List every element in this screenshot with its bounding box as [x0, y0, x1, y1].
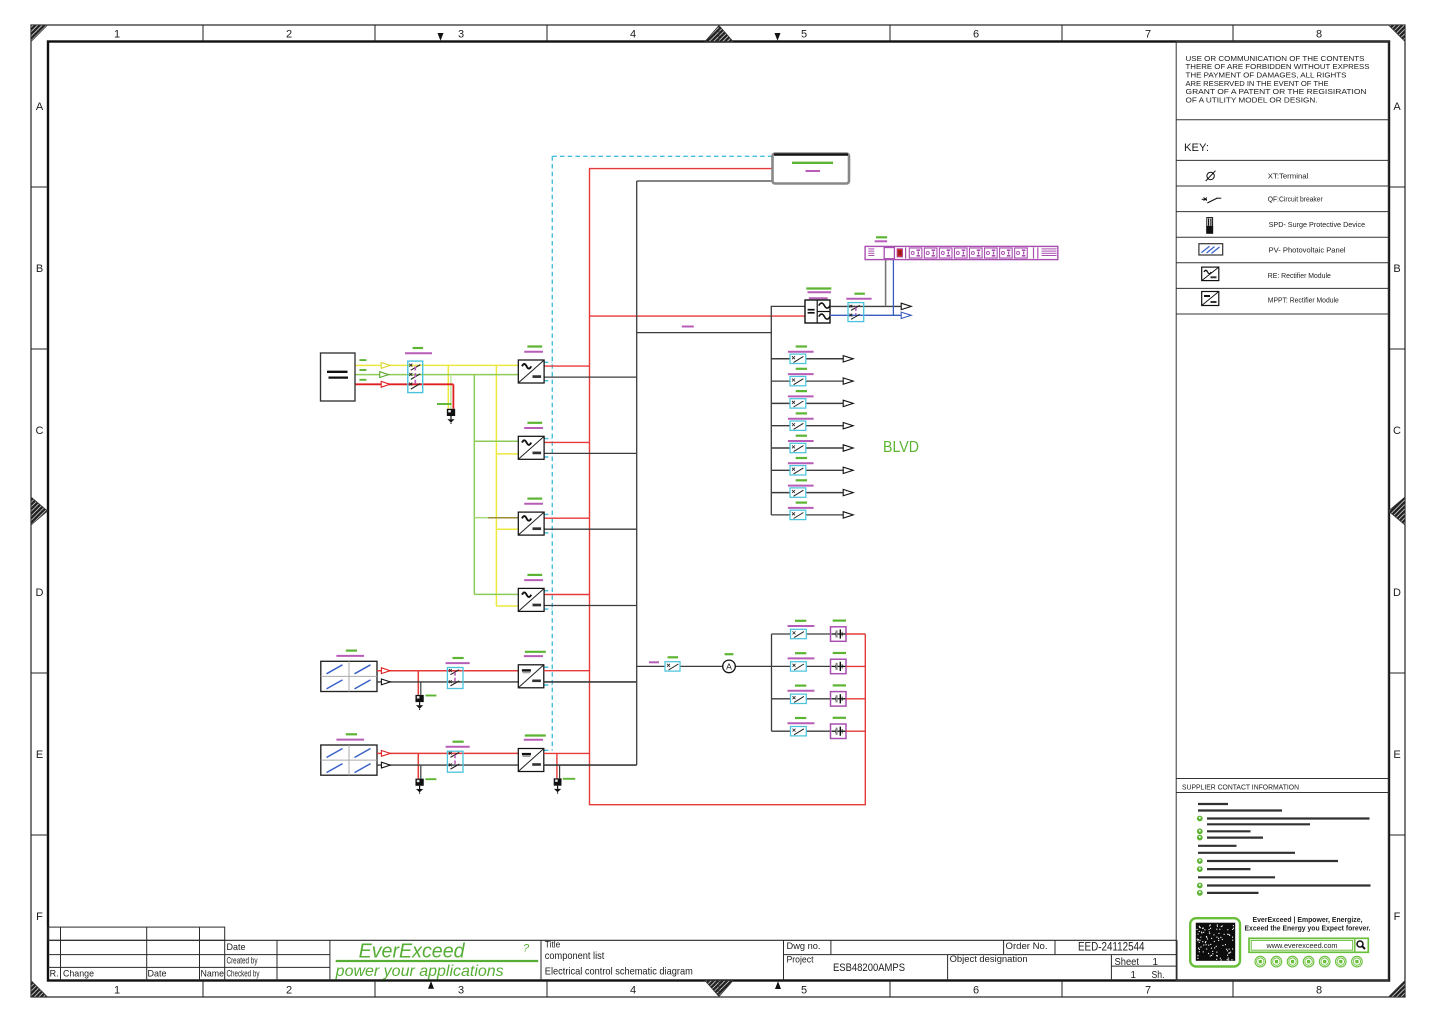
svg-text:KEY:: KEY: [1184, 142, 1209, 154]
breaker QF BLVD 4 [790, 421, 806, 430]
battery GB3 [831, 692, 847, 707]
rectifier module RE4 [518, 588, 544, 611]
node arrow BLVD 5 [843, 445, 853, 451]
label PV2 [336, 734, 364, 739]
wire BLVD branch 6 [771, 469, 843, 471]
breaker QF battery 4 [791, 727, 807, 736]
SPD symbol [1207, 218, 1213, 234]
wire BLVD branch 5 [771, 447, 843, 449]
wire red battery 2 [846, 665, 865, 667]
svg-text:C: C [36, 425, 44, 437]
label inverter feed [682, 326, 694, 328]
svg-text:Order No.: Order No. [1006, 941, 1048, 952]
svg-text:2: 2 [286, 985, 292, 997]
breaker QF PV2 2-pole [447, 751, 463, 772]
battery GB2 [831, 659, 847, 674]
wire PDU feed N [892, 260, 894, 316]
label SPD PV1 [425, 695, 436, 697]
node arrow BLVD 6 [843, 467, 853, 473]
svg-text:MPPT: Rectifier Module: MPPT: Rectifier Module [1268, 298, 1339, 305]
label QF PV2 [446, 742, 470, 747]
rectifier module RE3 [518, 512, 544, 535]
label RE1 [524, 347, 543, 352]
svg-text:XT:Terminal: XT:Terminal [1268, 174, 1309, 181]
label PDU [875, 237, 887, 241]
wire black PV2 [377, 765, 518, 779]
node arrow BLVD 3 [843, 400, 853, 406]
svg-text:4: 4 [630, 29, 636, 41]
breaker QF BLVD 3 [790, 399, 806, 408]
wire battery branch 4 [772, 730, 831, 732]
label BLVD branch 7 [788, 480, 814, 485]
label BLVD branch 8 [788, 503, 814, 508]
wire comm bus (dashed) [544, 156, 773, 750]
wire green phase from AC source [355, 375, 518, 595]
label SPD MPPT2 [563, 778, 575, 780]
svg-text:Project: Project [787, 955, 814, 966]
label battery branch 1 [788, 621, 847, 626]
node arrow AC out N [901, 312, 911, 318]
PV panel PV1 [321, 661, 377, 691]
label SPD1 [437, 403, 452, 405]
wire BLVD branch 7 [771, 492, 843, 494]
svg-text:SUPPLIER CONTACT INFORMATION: SUPPLIER CONTACT INFORMATION [1182, 783, 1299, 792]
svg-text:QF:Circuit breaker: QF:Circuit breaker [1268, 197, 1324, 204]
svg-text:RE: Rectifier Module: RE: Rectifier Module [1268, 273, 1331, 280]
breaker QF BLVD 1 [790, 354, 806, 363]
node arrow PV2 red [381, 751, 390, 757]
svg-text:6: 6 [973, 29, 979, 41]
svg-text:F: F [36, 911, 43, 923]
label inverter [806, 289, 831, 299]
svg-text:Sh.: Sh. [1152, 970, 1165, 981]
breaker QF BLVD 6 [790, 466, 806, 475]
svg-text:Object designation: Object designation [950, 954, 1028, 965]
wire inverter AC out N [830, 314, 901, 316]
svg-text:Name: Name [201, 969, 225, 980]
svg-text:1: 1 [114, 985, 120, 997]
label MPPT2 [524, 736, 546, 740]
svg-text:1: 1 [114, 29, 120, 41]
label SPD PV2 [425, 778, 436, 780]
battery GB1 [831, 627, 847, 642]
wire BLVD branch 3 [771, 402, 843, 404]
wire black rectifier outputs [544, 377, 637, 605]
label battery branch 3 [788, 685, 847, 690]
wire red phase from AC source to SPD [355, 384, 453, 409]
label AC source phases [359, 360, 366, 380]
label BLVD branch 1 [788, 347, 814, 352]
svg-text:A: A [36, 101, 44, 113]
svg-text:F: F [1394, 911, 1401, 923]
inverter DC-AC [805, 300, 830, 323]
svg-text:Exceed the Energy you Expect f: Exceed the Energy you Expect forever. [1245, 923, 1371, 932]
QR code [1190, 918, 1240, 966]
node arrow BLVD 7 [843, 489, 853, 495]
circuit breaker symbol QF [1202, 198, 1222, 204]
label MPPT1 [524, 652, 546, 656]
label BLVD branch 6 [788, 458, 814, 463]
svg-text:PV- Photovoltaic Panel: PV- Photovoltaic Panel [1269, 248, 1347, 255]
svg-text:Date: Date [148, 969, 167, 980]
wire battery feed [637, 665, 772, 667]
breaker QF BLVD 2 [790, 376, 806, 385]
svg-text:EverExceed: EverExceed [359, 941, 466, 963]
MPPT module MPPT1 [518, 665, 544, 688]
wire red PV2 [377, 753, 518, 778]
wire red rectifier outputs [544, 366, 590, 594]
wire PDU feed L [885, 260, 887, 307]
breaker QF battery feed [665, 657, 680, 671]
rectifier module symbol RE [1202, 267, 1219, 281]
label RE4 [524, 575, 543, 580]
PV panel symbol [1199, 244, 1223, 255]
svg-text:5: 5 [801, 29, 807, 41]
wire yellow phase from AC source [355, 365, 518, 606]
wire BLVD branch 8 [771, 514, 843, 516]
wire battery branch 3 [772, 698, 831, 700]
svg-text:EED-24112544: EED-24112544 [1078, 940, 1145, 953]
node arrow green [380, 372, 389, 378]
wire black PV1 [377, 682, 518, 695]
wire red MPPT1 out [544, 670, 590, 672]
svg-text:8: 8 [1316, 985, 1322, 997]
wire battery bus [771, 634, 773, 731]
AC source TR1 [321, 353, 356, 401]
label BLVD branch 3 [788, 391, 814, 396]
svg-text:3: 3 [458, 985, 464, 997]
breaker QF1 3-pole [408, 361, 423, 393]
SPD MPPT2 out with ground [554, 778, 562, 793]
node arrow PV2 black [381, 762, 390, 768]
svg-text:Title: Title [545, 940, 561, 950]
wire red battery 1 [846, 633, 865, 635]
svg-text:Date: Date [227, 942, 246, 953]
wire red MPPT2 out [544, 753, 590, 778]
svg-text:power your applications: power your applications [335, 963, 504, 980]
label battery branch 2 [788, 653, 847, 658]
svg-text:E: E [36, 749, 43, 761]
breaker QF BLVD 8 [790, 510, 806, 519]
PV panel PV2 [321, 745, 377, 775]
svg-text:E: E [1393, 749, 1400, 761]
svg-text:C: C [1393, 425, 1401, 437]
node arrow BLVD 8 [843, 512, 853, 518]
svg-text:component list: component list [545, 951, 605, 962]
wire black MPPT2 out [544, 765, 637, 778]
svg-text:4: 4 [630, 985, 636, 997]
svg-text:Dwg no.: Dwg no. [787, 941, 821, 952]
label QF PV1 [446, 658, 470, 663]
label RE3 [524, 499, 543, 504]
svg-text:B: B [36, 263, 43, 275]
SPD PV2 with ground [415, 779, 423, 794]
wire black MPPT1 out [544, 681, 637, 683]
wire black DC- bus [636, 181, 638, 765]
node arrow PV1 black [381, 679, 390, 685]
wire BLVD branch 2 [771, 380, 843, 382]
svg-text:D: D [36, 587, 44, 599]
svg-text:2: 2 [286, 29, 292, 41]
svg-text:BLVD: BLVD [883, 439, 919, 456]
search bar www.everexceed.com [1249, 938, 1368, 952]
battery GB4 [831, 724, 847, 739]
PDU power strip [865, 246, 1058, 259]
MPPT module MPPT2 [518, 749, 544, 772]
svg-text:6: 6 [973, 985, 979, 997]
SPD1 with ground [447, 409, 455, 424]
svg-text:?: ? [523, 943, 530, 955]
svg-text:5: 5 [801, 985, 807, 997]
label RE2 [524, 423, 543, 428]
wire battery branch 1 [772, 633, 831, 635]
svg-text:A: A [726, 662, 732, 672]
svg-text:3: 3 [458, 29, 464, 41]
svg-text:Sheet: Sheet [1115, 957, 1140, 968]
wire black to controller [637, 180, 773, 182]
social media icons [1255, 956, 1362, 967]
svg-text:A: A [1393, 101, 1401, 113]
rectifier module RE1 [518, 360, 544, 383]
node arrow PV1 red [381, 668, 390, 674]
svg-text:1: 1 [1131, 970, 1136, 981]
wire red DC+ to inverter [590, 315, 806, 317]
breaker QF battery 2 [791, 662, 807, 671]
SPD PV1 with ground [415, 695, 423, 710]
svg-text:Electrical control schematic d: Electrical control schematic diagram [545, 967, 693, 978]
breaker QF PV1 2-pole [447, 668, 463, 689]
controller monitor unit [773, 154, 850, 184]
supplier contact redacted lines [1197, 804, 1371, 896]
MPPT module symbol [1202, 292, 1219, 306]
svg-text:OF A UTILITY MODEL OR DESIGN.: OF A UTILITY MODEL OR DESIGN. [1186, 96, 1318, 105]
label battery feed [649, 661, 659, 663]
wire red battery 3 [846, 698, 865, 700]
rectifier module RE2 [518, 436, 544, 459]
ammeter PA [723, 654, 736, 673]
node arrow BLVD 2 [843, 378, 853, 384]
label BLVD branch 4 [788, 413, 814, 418]
svg-text:ESB48200AMPS: ESB48200AMPS [833, 962, 905, 974]
svg-text:7: 7 [1145, 29, 1151, 41]
node arrow BLVD 4 [843, 423, 853, 429]
wire BLVD branch 1 [771, 358, 843, 360]
wire inverter AC out L [830, 305, 901, 307]
wire red DC+ bus [590, 169, 866, 805]
label battery branch 4 [788, 718, 847, 723]
svg-text:Created by: Created by [227, 956, 258, 967]
breaker QF BLVD 7 [790, 488, 806, 497]
svg-text:Change: Change [63, 969, 94, 980]
wire red PV1 [377, 671, 518, 695]
label BLVD branch 2 [788, 369, 814, 374]
breaker QF BLVD 5 [790, 443, 806, 452]
label QF inverter out [846, 294, 871, 299]
node arrow red [381, 381, 390, 387]
svg-text:Checked by: Checked by [227, 969, 260, 980]
svg-text:D: D [1393, 587, 1401, 599]
label QF1 [405, 348, 432, 353]
node arrow yellow [381, 363, 390, 369]
svg-text:1: 1 [1153, 957, 1158, 968]
wire battery branch 2 [772, 665, 831, 667]
wire BLVD branch 4 [771, 425, 843, 427]
node arrow AC out L [901, 303, 911, 309]
breaker QF battery 3 [791, 694, 807, 703]
svg-text:SPD- Surge Protective Device: SPD- Surge Protective Device [1269, 222, 1366, 229]
svg-text:7: 7 [1145, 985, 1151, 997]
svg-text:R.: R. [50, 969, 59, 980]
terminal symbol XT [1206, 171, 1216, 181]
label PV1 [336, 651, 364, 656]
node arrow BLVD 1 [843, 356, 853, 362]
breaker QF inverter out [848, 303, 864, 322]
label BLVD branch 5 [788, 436, 814, 441]
breaker QF battery 1 [791, 629, 807, 638]
wire black bus to inverter [637, 306, 805, 332]
svg-text:8: 8 [1316, 29, 1322, 41]
svg-text:www.everexceed.com: www.everexceed.com [1265, 943, 1337, 950]
wire BLVD distribution bus [770, 333, 772, 515]
svg-text:B: B [1393, 263, 1400, 275]
wire red battery 4 [846, 730, 865, 732]
